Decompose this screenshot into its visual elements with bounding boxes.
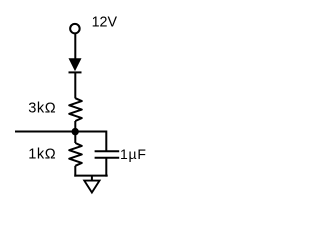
- wire: resistor 1k to ground rail: [74, 166, 76, 177]
- wire: diode cathode to resistor 3k: [74, 72, 76, 98]
- svg-text:3kΩ: 3kΩ: [28, 101, 56, 117]
- capacitor C1: [95, 151, 120, 157]
- wire: capacitor to ground rail: [105, 158, 107, 177]
- wire: output lead (left): [15, 131, 75, 133]
- wire: ground rail (bottom): [74, 175, 107, 177]
- wire: terminal to diode anode: [74, 34, 76, 60]
- ground: [84, 176, 99, 193]
- diode D1: [69, 58, 82, 72]
- resistor R2 1kΩ: [69, 143, 82, 166]
- supply terminal 12V: [70, 24, 80, 33]
- wire: node to resistor 1k: [74, 132, 76, 144]
- node junction dot: [72, 128, 79, 135]
- svg-text:1kΩ: 1kΩ: [28, 146, 56, 162]
- wire: resistor 3k to node: [74, 121, 76, 132]
- wire: node to capacitor branch: [75, 132, 106, 152]
- svg-text:12V: 12V: [92, 14, 118, 30]
- resistor R1 3kΩ: [69, 98, 82, 121]
- svg-text:1µF: 1µF: [120, 146, 147, 162]
